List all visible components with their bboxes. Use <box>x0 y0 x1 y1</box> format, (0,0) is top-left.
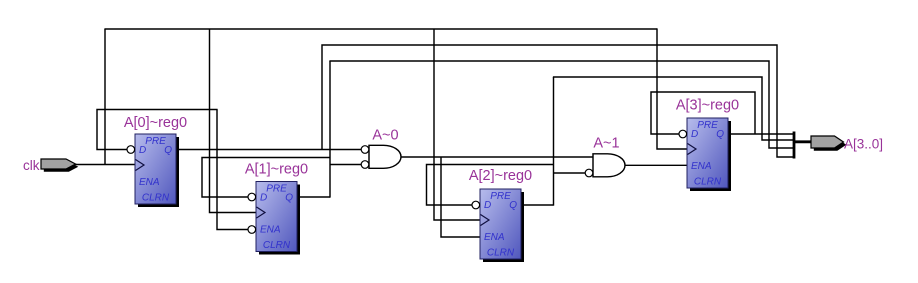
wire clk branch to FF3 clock <box>657 28 687 149</box>
and-gate A~1 lower input bubble <box>585 169 593 177</box>
flip-flop U2 clock triangle <box>481 215 490 226</box>
wire net A~1 output to FF3 ENA <box>625 164 687 166</box>
wire net A[2]: branch to A~1 lower input <box>554 172 586 174</box>
svg-text:A[1]~reg0: A[1]~reg0 <box>245 162 308 178</box>
wire net A[1]: top run to output bus <box>329 61 794 148</box>
wire net A[0]: feedback loop to FF0 D bubble <box>97 110 218 150</box>
svg-text:A[3..0]: A[3..0] <box>844 136 883 151</box>
and-gate A~0 body <box>369 145 401 168</box>
wire net A[1]: FF1 Q to corner <box>297 196 330 198</box>
flip-flop U0 D input bubble <box>127 146 135 154</box>
flip-flop U1 clock triangle <box>257 207 266 218</box>
svg-text:A[0]~reg0: A[0]~reg0 <box>124 115 187 131</box>
output pin A[3..0] <box>811 136 844 148</box>
svg-text:D: D <box>691 129 698 140</box>
wire net A[2]: FF2 Q to corner <box>521 204 554 206</box>
svg-text:CLRN: CLRN <box>694 177 722 188</box>
wire net A[3]: FF3 Q to output bus <box>728 133 794 135</box>
input pin clk shadow <box>44 162 79 172</box>
flip-flop U3 A[3]~reg0 body <box>687 118 728 188</box>
flip-flop U1 A[1]~reg0 shadow <box>259 185 300 255</box>
flip-flop U1 ENA input bubble <box>248 226 256 234</box>
wire net A[3]: feedback loop to FF3 D bubble <box>651 92 755 134</box>
svg-text:PRE: PRE <box>266 184 287 195</box>
flip-flop U3 clock triangle <box>688 144 697 155</box>
svg-text:ENA: ENA <box>139 177 160 188</box>
svg-text:CLRN: CLRN <box>142 193 170 204</box>
svg-text:D: D <box>260 193 267 204</box>
wire clk branch to FF2 clock <box>434 29 480 220</box>
flip-flop U1 A[1]~reg0 body <box>256 182 297 252</box>
svg-text:D: D <box>484 200 491 211</box>
svg-text:A~0: A~0 <box>372 128 398 144</box>
svg-text:A~1: A~1 <box>593 136 619 152</box>
wire net A~0 output branch to FF2 ENA <box>441 157 480 237</box>
svg-text:ENA: ENA <box>260 225 281 236</box>
wire net A~0 output to A~1 upper input <box>401 156 593 158</box>
wire clk top horizontal y=29 <box>104 28 657 30</box>
wire net A[0]: FF0 Q to A~0 upper input <box>176 149 361 151</box>
svg-text:PRE: PRE <box>697 120 718 131</box>
output pin A[3..0] shadow <box>814 139 847 151</box>
bus thick wire to output pin <box>794 140 812 143</box>
and-gate A~1 body <box>593 154 625 177</box>
wire net A[1]: branch to A~0 lower input <box>330 164 361 166</box>
svg-text:CLRN: CLRN <box>487 248 515 259</box>
svg-text:clk: clk <box>23 158 40 173</box>
flip-flop U0 A[0]~reg0 shadow <box>138 137 179 207</box>
svg-text:Q: Q <box>716 129 724 140</box>
svg-text:A[2]~reg0: A[2]~reg0 <box>469 168 532 184</box>
svg-text:Q: Q <box>164 145 172 156</box>
wire clk branch to FF1 clock <box>210 29 257 213</box>
wire net A[0]: branch x=217 down to FF1 ENA bubble <box>217 110 248 230</box>
flip-flop U2 A[2]~reg0 shadow <box>483 192 524 262</box>
flip-flop U2 D input bubble <box>472 201 480 209</box>
svg-text:ENA: ENA <box>691 161 712 172</box>
wire clk pin to FF0 clock <box>75 164 135 166</box>
flip-flop U0 A[0]~reg0 body <box>135 134 176 204</box>
svg-text:Q: Q <box>285 193 293 204</box>
svg-text:Q: Q <box>509 200 517 211</box>
svg-text:D: D <box>139 145 146 156</box>
svg-text:PRE: PRE <box>490 191 511 202</box>
and-gate A~0 upper input bubble <box>361 146 369 154</box>
wire net A[2]: riser x=553.5 <box>553 77 555 206</box>
wire net A[1]: riser x=330 <box>329 61 331 198</box>
and-gate A~0 lower input bubble <box>361 161 369 169</box>
svg-text:PRE: PRE <box>145 136 166 147</box>
svg-text:CLRN: CLRN <box>263 240 291 251</box>
input pin clk <box>41 159 76 169</box>
wire net A[0]: branch to output bus <box>322 45 794 157</box>
wire net A[1]: feedback loop to FF1 D bubble <box>202 158 330 198</box>
flip-flop U3 A[3]~reg0 shadow <box>690 121 731 191</box>
flip-flop U2 A[2]~reg0 body <box>480 189 521 259</box>
flip-flop U0 clock triangle <box>136 160 145 171</box>
flip-flop U3 D input bubble <box>679 130 687 138</box>
wire net A[2]: top run to output bus <box>553 77 794 140</box>
wire clk riser x=105 <box>104 29 106 165</box>
wire net A[2]: feedback loop to FF2 D bubble <box>427 165 554 206</box>
svg-text:ENA: ENA <box>484 232 505 243</box>
bus collector bar <box>793 132 796 159</box>
svg-text:A[3]~reg0: A[3]~reg0 <box>676 98 739 114</box>
flip-flop U1 D input bubble <box>248 193 256 201</box>
